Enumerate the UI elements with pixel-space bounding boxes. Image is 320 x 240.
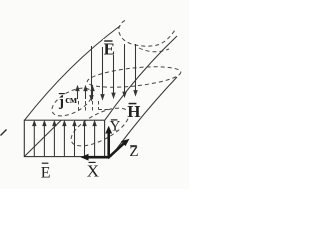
svg-text:H: H	[127, 102, 140, 121]
svg-text:X: X	[87, 161, 99, 180]
H-field loop A (dashed ellipse around jcm)	[48, 82, 97, 121]
svg-text:E: E	[41, 165, 51, 182]
svg-text:см: см	[65, 95, 77, 106]
E arrows front face (up), 7 lines	[33, 121, 96, 156]
label E bottom	[41, 163, 51, 182]
label Z axis	[129, 144, 138, 160]
label jcm	[58, 93, 77, 110]
H-field loop C (dashed arc, top right)	[119, 21, 175, 47]
front face rectangle	[24, 120, 104, 156]
H-field loop D (dashed ellipse around origin)	[66, 100, 135, 153]
svg-text:Y: Y	[110, 119, 121, 135]
label X axis	[87, 161, 99, 180]
svg-text:Z: Z	[129, 144, 138, 160]
small dashed arc below loop C	[139, 48, 169, 52]
H-field loop D2 (long flat dashed ellipse, right)	[86, 63, 181, 91]
label Y axis	[110, 119, 121, 135]
E arrows mid-plane pointing up (group 2)	[76, 86, 94, 99]
label E top (vector E)	[103, 39, 115, 59]
E arrows far plane pointing down (group 3), 5 lines	[90, 44, 137, 100]
receding edge bottom-right (thin line along Z beyond axes)	[111, 77, 177, 157]
label H (vector H)	[127, 102, 141, 122]
svg-text:j: j	[58, 94, 64, 110]
small stray mark at left edge	[1, 130, 7, 136]
Y axis (bold, pointing up)	[105, 126, 112, 158]
jcm displacement current dashed lines	[79, 101, 111, 112]
Z axis (bold, diagonal up-right)	[108, 139, 130, 158]
svg-text:E: E	[104, 40, 115, 59]
receding edge from top-left corner (long diagonal)	[25, 26, 121, 121]
receding edge from bottom-left corner (diagonal inside rectangle)	[25, 120, 61, 156]
X axis (bold, pointing left)	[81, 154, 110, 161]
receding edge from top-right corner (long diagonal)	[105, 36, 177, 120]
